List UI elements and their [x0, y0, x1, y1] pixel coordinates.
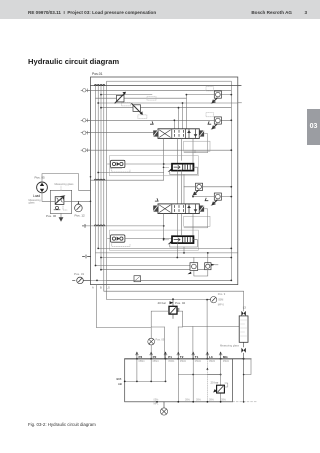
node port X1 left [83, 89, 86, 92]
transistor solenoid DV1 left [153, 130, 158, 136]
svg-text:05%: 05% [154, 398, 160, 401]
wire tank return header [178, 374, 220, 376]
wire RV40 subplate [151, 311, 183, 327]
valve inline filter F1 [134, 276, 141, 282]
wire channel to manifold [164, 327, 178, 359]
svg-text:MP 6: MP 6 [218, 303, 225, 307]
wire DV1 pilot loop right [184, 134, 208, 153]
capacitor measuring glass MG1 [220, 316, 248, 347]
wire line to check valve CV6 [101, 269, 205, 271]
wire ladder group2 [184, 187, 231, 197]
wire inner manifold boundary box [107, 81, 232, 280]
valve PRV3 cartridge [194, 183, 203, 195]
gauge indicator lamp LP1 [148, 338, 165, 346]
svg-text:Pos. 09: Pos. 09 [156, 338, 165, 342]
node coupling bumps lower [94, 225, 104, 226]
node junction dots group2 [192, 186, 232, 198]
valve shutoff SV2 below glass [241, 342, 251, 402]
svg-text:L3: L3 [209, 355, 213, 359]
wire lamp to port P2 [150, 345, 152, 359]
wire DV2 port stubs [164, 214, 193, 239]
svg-text:05%: 05% [221, 398, 227, 401]
svg-text:P1: P1 [168, 355, 172, 359]
wire DV1 port stubs [164, 138, 193, 180]
node label box gray [111, 166, 122, 169]
svg-text:Pos.01: Pos.01 [92, 72, 103, 76]
wire manifold line [125, 358, 251, 360]
wire pilot drop a [173, 120, 175, 129]
wire FM1 pilot dashes [112, 168, 130, 172]
wire line to check valve CV5 [96, 265, 191, 267]
svg-text:MP1: MP1 [154, 403, 160, 406]
wire outer system boundary box [91, 77, 238, 285]
svg-text:Measuring glass: Measuring glass [55, 182, 75, 186]
valve cartridge CV6 [205, 252, 218, 270]
svg-text:L3: L3 [243, 306, 247, 310]
svg-text:05M4: 05M4 [180, 360, 187, 363]
svg-text:40 bar: 40 bar [158, 301, 167, 305]
wire DV2 subplate outline [184, 216, 210, 226]
wire drop A below box [96, 285, 151, 339]
wire branch to port T1 [192, 327, 194, 359]
wire FM2 pilot dashes [112, 242, 130, 246]
wire PC2 outlet drops [177, 243, 184, 257]
wire right stub T [238, 102, 242, 104]
svg-text:Pos. 06: Pos. 06 [46, 214, 57, 218]
node manifold port arrows [136, 352, 223, 359]
svg-text:Pos. 05: Pos. 05 [35, 176, 46, 180]
gauge pressure gauge PG3 bottom [160, 402, 167, 415]
svg-text:05M4: 05M4 [209, 360, 216, 363]
valve cartridge CV5 [188, 258, 198, 275]
svg-text:Pos. 31: Pos. 31 [74, 272, 85, 276]
valve system relief valve RV40 40bar [151, 298, 185, 359]
wire motor top loop [42, 174, 91, 191]
svg-text:05%: 05% [196, 398, 202, 401]
transistor hydraulic motor M1 load [37, 182, 48, 193]
wire lower ladder lines [96, 248, 238, 257]
node port X2 left [83, 119, 86, 122]
svg-text:Pos. 12: Pos. 12 [75, 214, 86, 218]
svg-text:Load: Load [33, 194, 40, 198]
op-amp main directional valve DV2 4/3 [153, 198, 208, 213]
node coupling bumps mid [94, 179, 104, 180]
valve PRV2 cartridge [212, 117, 221, 129]
wire load sense branch [98, 172, 164, 174]
wire motor bottom to flow valve [42, 193, 50, 202]
wire vertical bus line 4 [103, 85, 105, 292]
wire drop B long line to measuring glass [104, 285, 244, 311]
wire DV1 subplate outline [184, 141, 210, 151]
wire FC1 through line [50, 200, 71, 202]
valve PRV1 cartridge [212, 91, 221, 103]
svg-text:Pos. 02: Pos. 02 [175, 301, 186, 305]
valve shutoff SV1 above glass [241, 306, 246, 316]
wire PC1 bypass loop [170, 167, 198, 174]
svg-text:glass: glass [29, 201, 36, 205]
resistor pressure compensator PC2 [163, 236, 198, 247]
svg-text:P3: P3 [139, 355, 143, 359]
node junction dots bottom [96, 280, 232, 282]
svg-text:T1: T1 [195, 355, 199, 359]
op-amp main directional valve DV1 4/3 [150, 122, 210, 139]
node junction dots power unit [124, 374, 222, 383]
transistor solenoid DV1 right [199, 130, 204, 136]
wire ladder L6 port X2 line [86, 119, 231, 121]
node junction dots lower ladder [97, 248, 232, 259]
wire assembly outline FM1 PC1 [110, 156, 199, 176]
svg-text:T2: T2 [180, 355, 184, 359]
capacitor flow meter FM1 [111, 160, 125, 167]
wire vertical bus line 1 [95, 85, 97, 266]
gauge pressure gauge PG2 [207, 292, 226, 306]
node port X4 left [83, 149, 86, 152]
svg-text:05M4: 05M4 [139, 360, 146, 363]
svg-text:LS: LS [107, 286, 110, 290]
wire port drops inside power unit [137, 359, 221, 402]
wire label boxes dashed [122, 87, 214, 119]
wire assembly outline FM2 PC2 [110, 230, 199, 250]
svg-text:A: A [92, 286, 94, 290]
node junction dots upper ladder [97, 94, 232, 151]
valve throttle inside FC1 [55, 197, 64, 205]
valve check inside FC1 [56, 206, 59, 209]
node port dots manifold [136, 358, 245, 360]
svg-text:MG: MG [223, 355, 228, 359]
svg-text:AB: AB [118, 382, 122, 386]
wire supply manifold line M1 [91, 85, 241, 87]
gauge pressure gauge PG1 [75, 201, 86, 217]
valve V1 throttle check [117, 95, 125, 102]
wire pilot dashed drop L3 [206, 359, 208, 402]
wire subplate tank line to measuring glass [183, 326, 240, 328]
transistor solenoid DV2 left [153, 206, 158, 212]
wire FC1 outlet to boundary [72, 200, 91, 202]
wire port line lower left [85, 225, 164, 227]
wire port X3 line to solenoid [86, 132, 153, 134]
svg-text:05M: 05M [218, 298, 223, 302]
node coupling bumps on M1 [94, 84, 104, 85]
gauge pressure gauge PG0 left bottom [73, 272, 91, 284]
wire right stub P [238, 85, 242, 87]
node port X3 left [83, 131, 86, 134]
svg-text:05%: 05% [185, 398, 191, 401]
wire ladder L4 [98, 102, 238, 104]
wire vertical bus line 2 [97, 85, 99, 249]
wire leak line to L3 port [206, 300, 208, 359]
wire vertical bus line 3 [100, 85, 102, 270]
svg-text:20 bar: 20 bar [211, 380, 219, 384]
wire PC2 bypass loop [170, 240, 198, 247]
node coupling port X5 left [83, 255, 91, 258]
valve V2 throttle check [133, 105, 141, 112]
node coupling port lower left [83, 224, 86, 227]
wire pump suction header [125, 380, 166, 382]
wire ladder M2 [86, 89, 231, 91]
wire power unit box [125, 359, 233, 402]
wire ladder L2 valve feed [101, 94, 231, 96]
wire ladder L3 [96, 97, 187, 99]
wire drop LS line to gauge PG2 [107, 280, 207, 299]
wire CV5 CV6 bypass loop [194, 270, 208, 276]
svg-text:B05: B05 [117, 377, 122, 381]
capacitor flow meter FM2 [111, 235, 125, 242]
wire pilot drop c [182, 103, 184, 129]
wire ladder L5 [101, 107, 231, 109]
wire FM1 line [108, 163, 173, 165]
svg-text:05M4: 05M4 [168, 360, 175, 363]
svg-text:P2: P2 [153, 355, 157, 359]
wire pilot drop b [178, 108, 180, 129]
valve flow control FC1 box [50, 190, 71, 213]
valve PRV4 cartridge [212, 193, 221, 205]
wire port X4 line [86, 149, 231, 151]
wire inner box bottom feed [91, 279, 232, 281]
node bottom edge dots [156, 401, 244, 403]
svg-text:05M4: 05M4 [223, 360, 230, 363]
wire FM2 line [108, 238, 173, 240]
wire FC1 drain [60, 214, 62, 218]
resistor pressure compensator PC1 [163, 164, 198, 175]
valve tank relief RV20 20bar [211, 380, 228, 393]
svg-text:B: B [100, 286, 102, 290]
wire group1 to group2 verticals [177, 171, 184, 204]
svg-text:05M4: 05M4 [195, 360, 202, 363]
svg-text:05M4: 05M4 [153, 360, 160, 363]
wire load return line [91, 179, 164, 181]
transistor solenoid DV2 right [199, 206, 204, 212]
svg-text:Pos. 9: Pos. 9 [218, 292, 226, 296]
node junction dots left [90, 176, 92, 202]
svg-text:Measuring glass: Measuring glass [220, 343, 240, 347]
wire pilot drop d [185, 95, 187, 129]
node port labels manifold [139, 355, 229, 359]
svg-text:05%: 05% [209, 398, 215, 401]
wire DV2 pilot loop right [184, 209, 208, 228]
